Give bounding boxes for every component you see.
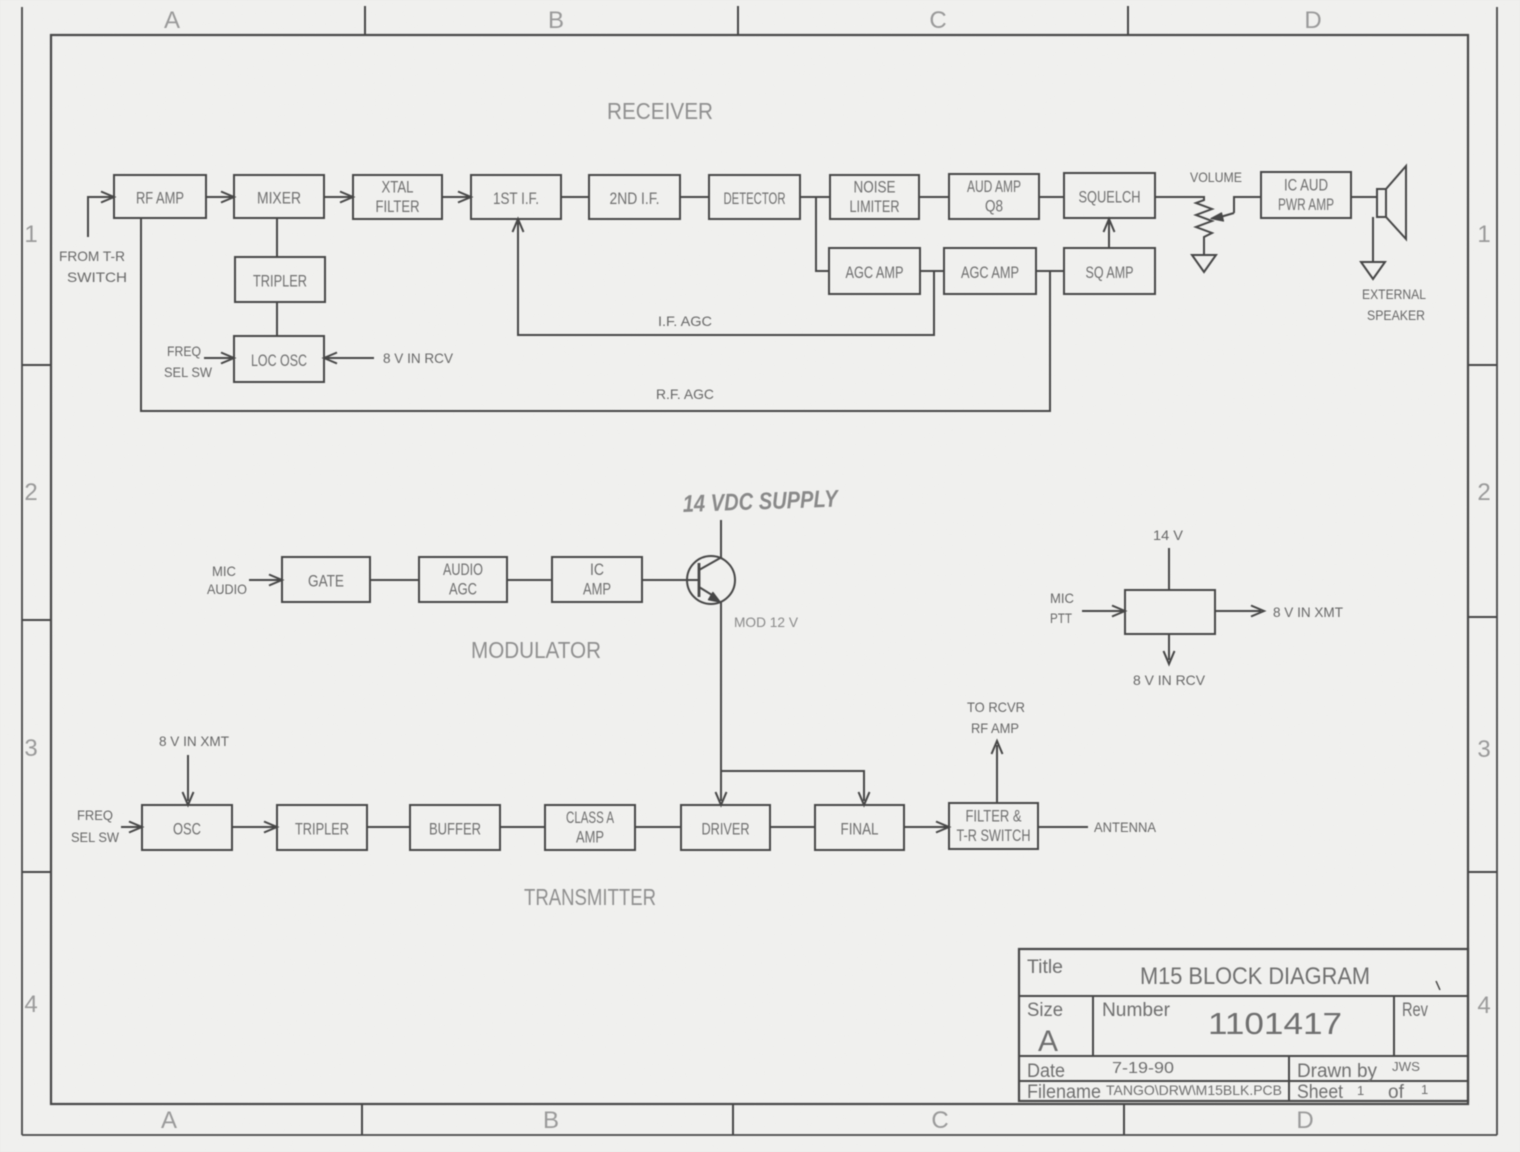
svg-text:BUFFER: BUFFER (429, 820, 481, 839)
wire MIC AUDIO into GATE (249, 575, 282, 586)
wire FREQ SEL SW into OSC (121, 822, 142, 833)
block AGC AMP second (944, 248, 1036, 294)
svg-text:SQ AMP: SQ AMP (1086, 263, 1134, 282)
svg-text:EXTERNAL: EXTERNAL (1362, 286, 1426, 302)
svg-text:AUD AMP: AUD AMP (967, 177, 1021, 196)
svg-text:TRANSMITTER: TRANSMITTER (524, 884, 656, 910)
block CLASS A AMP (545, 805, 635, 850)
block DETECTOR (709, 175, 800, 219)
svg-text:RF AMP: RF AMP (136, 189, 184, 208)
svg-text:FROM T-R: FROM T-R (59, 248, 125, 264)
svg-text:AUDIO: AUDIO (443, 560, 483, 579)
svg-text:8 V IN XMT: 8 V IN XMT (159, 733, 229, 749)
wire AGC AMP to SQ AMP (1036, 270, 1064, 272)
wire SQUELCH to volume pot (1155, 196, 1204, 198)
svg-text:Q8: Q8 (985, 197, 1003, 216)
wire IC AUD PWR AMP to speaker (1351, 196, 1377, 198)
svg-text:TANGO\DRW\M15BLK.PCB: TANGO\DRW\M15BLK.PCB (1106, 1082, 1282, 1098)
svg-text:PTT: PTT (1050, 610, 1072, 626)
svg-text:AGC AMP: AGC AMP (961, 263, 1019, 282)
svg-text:8 V IN XMT: 8 V IN XMT (1273, 604, 1343, 620)
svg-text:AUDIO: AUDIO (207, 581, 247, 597)
wire AUD AMP to SQUELCH (1039, 196, 1064, 198)
svg-text:TO RCVR: TO RCVR (967, 699, 1025, 715)
wire CLASS A AMP to DRIVER (635, 826, 681, 828)
label TO RCVR RF AMP (967, 699, 1025, 736)
svg-text:A: A (164, 7, 180, 34)
block IC AUD PWR AMP (1261, 172, 1351, 218)
zone tick top B/C (737, 6, 739, 35)
block FILTER & T-R SWITCH (949, 803, 1038, 849)
svg-text:1: 1 (1477, 221, 1490, 248)
svg-text:8 V IN RCV: 8 V IN RCV (383, 350, 454, 366)
svg-text:MIC: MIC (212, 563, 236, 579)
title block label Sheet 1 of 1 (1297, 1082, 1428, 1103)
svg-text:SQUELCH: SQUELCH (1079, 188, 1141, 207)
wire AGC AMP to AGC AMP (920, 270, 944, 272)
zone tick left 3/4 (22, 871, 51, 873)
wire FREQ SEL SW into LOC OSC (204, 353, 234, 364)
block RF AMP (114, 175, 206, 218)
wire FILTER to ANTENNA (1038, 826, 1088, 828)
block 1ST I.F. (471, 175, 561, 219)
svg-text:C: C (931, 1107, 948, 1134)
svg-text:AMP: AMP (576, 828, 604, 847)
svg-text:4: 4 (1477, 992, 1490, 1019)
svg-text:4: 4 (24, 991, 37, 1018)
svg-text:2ND I.F.: 2ND I.F. (610, 189, 660, 208)
svg-text:RECEIVER: RECEIVER (607, 98, 713, 124)
svg-text:VOLUME: VOLUME (1190, 169, 1242, 185)
wire FILTER up to receiver RF AMP (992, 741, 1003, 803)
block OSC (142, 805, 232, 850)
svg-text:NOISE: NOISE (854, 178, 896, 197)
svg-text:14 V: 14 V (1153, 527, 1184, 543)
svg-text:FINAL: FINAL (841, 820, 879, 839)
wire FINAL to FILTER & T-R SWITCH (904, 822, 949, 833)
svg-text:Drawn by: Drawn by (1297, 1061, 1377, 1082)
svg-text:TRIPLER: TRIPLER (253, 272, 307, 291)
zone tick right 1/2 (1468, 364, 1497, 366)
svg-text:IC: IC (590, 560, 604, 579)
modulator transistor Q MOD (687, 556, 735, 604)
svg-text:SPEAKER: SPEAKER (1367, 307, 1425, 323)
svg-text:SWITCH: SWITCH (67, 269, 127, 285)
block PTT switch (unlabelled) (1125, 590, 1215, 634)
wire DETECTOR to NOISE LIMITER (800, 196, 830, 198)
svg-text:ANTENNA: ANTENNA (1094, 819, 1157, 835)
svg-text:FILTER: FILTER (376, 197, 420, 216)
svg-text:PWR AMP: PWR AMP (1278, 195, 1334, 214)
label MIC AUDIO (207, 563, 247, 597)
svg-text:FREQ: FREQ (77, 807, 113, 823)
svg-text:LOC OSC: LOC OSC (251, 351, 307, 370)
svg-text:1: 1 (1421, 1082, 1428, 1097)
block 2ND I.F. (589, 175, 680, 219)
wire DRIVER to FINAL (770, 826, 815, 828)
block AGC AMP first (829, 248, 920, 294)
label FROM T-R SWITCH (59, 248, 127, 285)
wire XTAL FILTER to 1ST I.F. (442, 192, 471, 203)
block GATE (282, 557, 370, 602)
wire R.F. AGC feedback (141, 219, 1050, 411)
speaker ground wire and triangle (1361, 217, 1385, 279)
svg-text:B: B (543, 1107, 559, 1134)
wire modulator emitter down to driver and final (716, 601, 870, 805)
label EXTERNAL SPEAKER (1362, 286, 1426, 323)
wire 1ST I.F. to 2ND I.F. (561, 196, 589, 198)
wire GATE to AUDIO AGC (370, 579, 419, 581)
block AUD AMP Q8 (949, 174, 1039, 219)
wire 8 V IN XMT down into OSC (183, 755, 194, 805)
wire volume wiper to IC AUD PWR AMP (1211, 197, 1261, 221)
zone tick bottom C/D (1123, 1104, 1125, 1135)
svg-text:MIXER: MIXER (257, 189, 301, 208)
block SQ AMP (1064, 248, 1155, 294)
svg-text:2: 2 (1477, 479, 1490, 506)
block XTAL FILTER (353, 175, 442, 219)
wire NOISE LIMITER to AUD AMP (919, 196, 949, 198)
svg-text:D: D (1304, 7, 1321, 34)
volume potentiometer (1192, 196, 1216, 272)
wire RF AMP to MIXER (206, 192, 234, 203)
title block frame (1019, 949, 1468, 1101)
svg-text:1: 1 (1357, 1083, 1364, 1098)
zone tick left 2/3 (22, 619, 51, 621)
svg-text:AGC: AGC (449, 580, 477, 599)
zone tick bottom A/B (361, 1104, 363, 1135)
wire junction detector output down to AGC AMP (816, 197, 829, 271)
zone tick top C/D (1127, 6, 1129, 35)
svg-text:OSC: OSC (173, 820, 201, 839)
svg-text:Title: Title (1027, 957, 1063, 978)
zone tick bottom B/C (732, 1104, 734, 1135)
wire 14 V into PTT box (1168, 548, 1170, 590)
wire 2ND I.F. to DETECTOR (680, 196, 709, 198)
wire SQ AMP up to SQUELCH (1104, 219, 1115, 248)
svg-text:Number: Number (1102, 1000, 1171, 1021)
label FREQ SEL SW receiver (164, 343, 213, 380)
block TRIPLER receiver (235, 257, 325, 302)
svg-text:JWS: JWS (1392, 1059, 1420, 1074)
svg-text:Filename: Filename (1027, 1082, 1101, 1103)
zone tick right 2/3 (1468, 616, 1497, 618)
block AUDIO AGC (419, 557, 507, 602)
wire BUFFER to CLASS A AMP (500, 826, 545, 828)
svg-text:7-19-90: 7-19-90 (1112, 1060, 1174, 1077)
border outer bottom line (22, 1134, 1497, 1136)
wire IC AMP to modulator transistor base (642, 579, 698, 581)
svg-text:A: A (161, 1107, 177, 1134)
block DRIVER (681, 805, 770, 850)
block FINAL (815, 805, 904, 850)
label MIC PTT (1050, 590, 1074, 626)
svg-text:LIMITER: LIMITER (850, 197, 900, 216)
block LOC OSC (234, 336, 324, 382)
border outer right line (1496, 7, 1498, 1135)
svg-text:MOD 12 V: MOD 12 V (734, 614, 799, 630)
border outer left line (21, 7, 23, 1135)
svg-text:14 VDC SUPPLY: 14 VDC SUPPLY (682, 486, 840, 518)
wire MIXER to XTAL FILTER (324, 192, 353, 203)
zone tick right 3/4 (1468, 871, 1497, 873)
svg-text:DRIVER: DRIVER (702, 820, 750, 839)
block MIXER (234, 175, 324, 218)
wire 8 V IN RCV into LOC OSC (324, 353, 374, 364)
wire I.F. AGC feedback (513, 219, 935, 335)
svg-text:T-R SWITCH: T-R SWITCH (957, 826, 1031, 845)
block SQUELCH (1064, 173, 1155, 218)
svg-text:CLASS A: CLASS A (566, 808, 614, 827)
svg-text:A: A (1038, 1025, 1058, 1058)
svg-text:TRIPLER: TRIPLER (295, 820, 349, 839)
wire MIXER down to TRIPLER (276, 218, 278, 257)
svg-text:8 V IN RCV: 8 V IN RCV (1133, 672, 1206, 688)
svg-text:MIC: MIC (1050, 590, 1074, 606)
svg-text:SEL SW: SEL SW (71, 829, 120, 845)
svg-text:1101417: 1101417 (1208, 1006, 1342, 1041)
wire from T-R switch into RF AMP (88, 192, 114, 238)
wire OSC to TRIPLER (232, 822, 277, 833)
wire PTT box to 8 V IN XMT (1215, 606, 1264, 617)
svg-text:RF AMP: RF AMP (971, 720, 1019, 736)
stray apostrophe mark (1436, 981, 1440, 990)
svg-text:of: of (1388, 1082, 1405, 1103)
svg-text:Sheet: Sheet (1297, 1082, 1344, 1103)
svg-text:AMP: AMP (583, 580, 611, 599)
svg-text:D: D (1296, 1107, 1313, 1134)
svg-text:R.F. AGC: R.F. AGC (656, 386, 714, 402)
svg-text:B: B (548, 7, 564, 34)
svg-text:FREQ: FREQ (167, 343, 201, 359)
svg-text:XTAL: XTAL (382, 178, 414, 197)
svg-text:M15 BLOCK DIAGRAM: M15 BLOCK DIAGRAM (1140, 963, 1370, 990)
svg-text:GATE: GATE (308, 572, 344, 591)
wire 14 VDC supply to collector (720, 520, 722, 557)
svg-text:IC AUD: IC AUD (1284, 176, 1328, 195)
wire AUDIO AGC to IC AMP (507, 579, 552, 581)
svg-text:Date: Date (1027, 1061, 1065, 1082)
svg-text:3: 3 (1477, 736, 1490, 763)
svg-text:SEL SW: SEL SW (164, 364, 213, 380)
block TRIPLER transmitter (277, 805, 367, 850)
wire MIC PTT into PTT box (1082, 606, 1125, 617)
wire TRIPLER down to LOC OSC (276, 302, 278, 336)
svg-text:2: 2 (24, 479, 37, 506)
svg-text:FILTER &: FILTER & (966, 807, 1022, 826)
wire PTT box down to 8 V IN RCV (1164, 634, 1175, 664)
svg-text:3: 3 (24, 735, 37, 762)
svg-text:I.F. AGC: I.F. AGC (658, 313, 712, 329)
svg-text:Rev: Rev (1402, 1000, 1428, 1021)
svg-text:AGC AMP: AGC AMP (846, 263, 904, 282)
zone tick left 1/2 (22, 364, 51, 366)
svg-text:1: 1 (24, 221, 37, 248)
svg-text:C: C (929, 7, 946, 34)
svg-text:1ST I.F.: 1ST I.F. (493, 189, 539, 208)
block IC AMP (552, 557, 642, 602)
block BUFFER (410, 805, 500, 850)
zone tick top A/B (364, 6, 366, 35)
wire TRIPLER to BUFFER (367, 826, 410, 828)
block NOISE LIMITER (830, 175, 919, 219)
label FREQ SEL SW transmitter (71, 807, 120, 845)
speaker symbol (1377, 166, 1406, 239)
svg-text:DETECTOR: DETECTOR (724, 189, 786, 208)
svg-text:MODULATOR: MODULATOR (471, 637, 601, 663)
svg-text:Size: Size (1027, 1000, 1063, 1021)
